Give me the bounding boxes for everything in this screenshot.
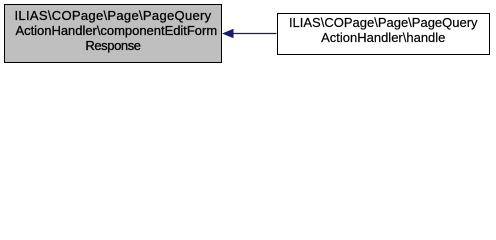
node handle (caller, white) bbox=[277, 13, 491, 55]
label handle bbox=[277, 16, 491, 45]
wire bbox=[233, 33, 277, 35]
label componentEditFormResponse bbox=[4, 9, 222, 53]
arrowhead bbox=[223, 29, 233, 38]
node componentEditFormResponse (current, gray) bbox=[4, 4, 223, 64]
edge handle -> componentEditFormResponse bbox=[0, 0, 496, 67]
